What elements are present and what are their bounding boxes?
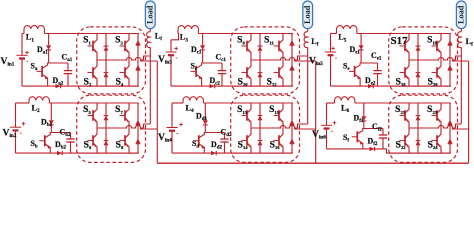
diode Dd1 (vertical, bottom module) (204, 103, 206, 120)
freewheel diode of S21 (417, 103, 419, 128)
freewheel diode of S10 (259, 60, 261, 86)
transistor S21 (top-left switch) (405, 103, 409, 113)
wire top DC rail of H-bridge (389, 102, 450, 104)
wire top rail from Vin5 to inductor L5 (331, 33, 337, 35)
transistor S9 (top-left switch) (247, 34, 251, 44)
freewheel diode column of S23 and S24 (right leg) (449, 103, 451, 153)
wire output B of top H-bridge to return bus (294, 60, 316, 62)
battery Vin2 (source of bottom module, column 1) (15, 103, 17, 127)
capacitor Ce1 (377, 63, 379, 71)
wire bottom rail of bottom module (172, 152, 293, 154)
battery Vin3 (source of top module, column 2) (170, 40, 172, 52)
wire load to filter inductor (307, 29, 309, 32)
freewheel diode of S17 (417, 34, 419, 61)
switch Sc (converter transistor) (197, 63, 203, 68)
wire common return bus along bottom (157, 162, 468, 164)
wire mid rail with crossover hop (97, 57, 144, 60)
wire node to capacitor (203, 62, 222, 64)
wire mid rail with crossover hop (251, 125, 298, 128)
wire node to capacitor (bottom module) (364, 128, 383, 130)
capacitor Cd2 (224, 133, 226, 140)
transistor S18 (bottom-left switch) (405, 60, 409, 70)
wire vertical return between modules (156, 61, 158, 163)
transistor S6 (bottom-left switch) (93, 128, 97, 138)
wire bottom rail of bottom module (327, 149, 452, 153)
switch Se (converter transistor) (355, 63, 361, 68)
diode De2 (on bottom rail) (368, 84, 373, 88)
transistor S24 (bottom-right switch) (437, 128, 441, 138)
freewheel diode column of S3 and S4 (right leg) (137, 34, 139, 87)
transistor S14 (bottom-left switch) (247, 128, 251, 138)
wire top rail to H-bridge (198, 33, 293, 35)
wire output B of bottom H-bridge (452, 128, 469, 130)
inductor L6 (335, 97, 355, 101)
wire output B of top H-bridge to return bus (140, 60, 157, 62)
wire bottom DC rail of H-bridge (231, 85, 292, 87)
wire bottom rail of top module (22, 85, 139, 87)
transistor S4 (bottom-right switch) (125, 60, 129, 70)
wire load to filter inductor (460, 29, 462, 32)
wire node to capacitor (361, 62, 377, 64)
wire mid rail with crossover hop (409, 125, 456, 128)
wire node to capacitor (bottom module) (205, 132, 224, 134)
svg-text:Load: Load (145, 5, 154, 24)
H-bridge module dashed enclosure (row 1, column 3) (389, 27, 458, 94)
transistor S13 (top-left switch) (247, 103, 251, 113)
battery Vin5 (source of top module, column 3) (330, 34, 332, 53)
battery Vin6 (source of bottom module, column 3) (326, 103, 328, 125)
wire bottom rail of bottom module (16, 152, 140, 154)
wire output A of top H-bridge (298, 56, 308, 60)
wire top rail to H-bridge (bottom module) (355, 102, 451, 104)
capacitor Cf2 (382, 129, 384, 136)
transistor S23 (top-right switch) (437, 103, 441, 113)
H-bridge module dashed enclosure (row 1, column 1) (77, 27, 146, 94)
diode Da2 (on bottom rail) (56, 84, 61, 88)
inductor L5 (337, 26, 357, 29)
freewheel diode of S18 (417, 60, 419, 86)
wire top rail to H-bridge (bottom module) (49, 102, 139, 104)
wire top rail from Vin2 to inductor L2 (16, 102, 30, 104)
diode Da1 (vertical) (48, 34, 50, 46)
wire top rail from Vin6 to inductor L6 (327, 102, 335, 104)
freewheel diode of S14 (259, 128, 261, 153)
wire node to capacitor (49, 62, 68, 64)
wire top DC rail of H-bridge (231, 102, 292, 104)
H-bridge module dashed enclosure (row 2, column 3) (389, 95, 458, 162)
transistor S8 (bottom-right switch) (125, 128, 129, 138)
freewheel diode of S9 (259, 34, 261, 61)
transistor S10 (bottom-left switch) (247, 60, 251, 70)
wire output A of top H-bridge (144, 56, 151, 60)
wire output A of bottom H-bridge (144, 124, 151, 128)
wire vertical return between modules (315, 61, 317, 163)
wire Lf down to H-bridge outputs (node A riser) (460, 47, 462, 124)
transistor S7 (top-right switch) (125, 103, 129, 113)
diode Dd2 (on bottom rail, bottom module) (211, 151, 216, 155)
inductor L4 (183, 97, 203, 101)
wire bottom DC rail of H-bridge (77, 85, 138, 87)
wire Lf down to H-bridge outputs (node A riser) (149, 47, 151, 124)
wire top rail to H-bridge (bottom module) (203, 102, 293, 104)
svg-text:S17: S17 (391, 35, 409, 47)
diode Dc1 (vertical) (202, 34, 204, 46)
H-bridge module dashed enclosure (row 2, column 1) (77, 95, 146, 162)
inductor L2 (29, 97, 49, 101)
diode De1 (vertical) (360, 34, 362, 46)
wire Lf down to H-bridge outputs (node A riser) (307, 47, 309, 124)
wire top rail from Vin4 to inductor L4 (172, 102, 183, 104)
diode Df1 (vertical, bottom module) (363, 103, 365, 116)
diode Df2 (on bottom rail, bottom module) (370, 147, 375, 151)
diode Db1 (vertical, bottom module) (50, 103, 52, 120)
freewheel diode column of S7 and S8 (right leg) (137, 103, 139, 153)
freewheel diode of S13 (259, 103, 261, 128)
transistor S17 (top-left switch) (405, 34, 409, 44)
transistor S15 (top-right switch) (279, 103, 283, 113)
wire output B of bottom H-bridge (294, 128, 316, 130)
transistor S22 (bottom-left switch) (405, 128, 409, 138)
inductor L1 (24, 26, 44, 29)
switch Sd (converter transistor, bottom module) (199, 133, 205, 138)
wire bottom rail of top module (331, 85, 452, 87)
wire bottom DC rail of H-bridge (389, 85, 450, 87)
capacitor Ca1 (67, 63, 69, 71)
freewheel diode of S6 (105, 128, 107, 153)
transistor S16 (bottom-right switch) (279, 128, 283, 138)
wire bottom rail of top module (171, 85, 293, 87)
transistor S20 (bottom-right switch) (437, 60, 441, 70)
wire mid rail with crossover hop (409, 57, 456, 60)
filter inductor Lf (column 3) (458, 32, 462, 48)
freewheel diode of S2 (105, 60, 107, 86)
wire top rail from Vin3 to inductor L3 (171, 34, 179, 40)
wire top DC rail of H-bridge (231, 33, 292, 35)
H-bridge module dashed enclosure (row 1, column 2) (231, 27, 300, 94)
transistor S5 (top-left switch) (93, 103, 97, 113)
wire bottom DC rail of H-bridge (231, 152, 292, 154)
transistor S1 (top-left switch) (93, 34, 97, 44)
transistor S12 (bottom-right switch) (279, 60, 283, 70)
wire top DC rail of H-bridge (77, 102, 138, 104)
wire load to filter inductor (149, 29, 151, 32)
load block (column 2) (303, 1, 313, 29)
freewheel diode of S1 (105, 34, 107, 61)
wire top DC rail of H-bridge (389, 33, 450, 35)
switch Sb (converter transistor, bottom module) (45, 133, 51, 138)
wire mid rail with crossover hop (97, 125, 144, 128)
wire output A of bottom H-bridge (298, 124, 308, 128)
wire output B of top H-bridge to return bus (452, 60, 469, 62)
freewheel diode column of S11 and S12 (right leg) (291, 34, 293, 87)
wire node to capacitor (bottom module) (51, 132, 70, 134)
wire mid rail with crossover hop (251, 57, 298, 60)
freewheel diode of S5 (105, 103, 107, 128)
wire bottom DC rail of H-bridge (389, 152, 450, 154)
H-bridge module dashed enclosure (row 2, column 2) (231, 95, 300, 162)
load block (column 3) (456, 1, 466, 29)
freewheel diode column of S15 and S16 (right leg) (291, 103, 293, 153)
switch Sf (converter transistor, bottom module) (358, 129, 364, 134)
wire vertical return between modules (468, 61, 470, 163)
filter inductor Lf (column 2) (304, 32, 308, 48)
wire output A of top H-bridge (456, 56, 462, 60)
transistor S3 (top-right switch) (125, 34, 129, 44)
diode Dc2 (on bottom rail) (210, 84, 215, 88)
wire top rail to H-bridge (44, 33, 139, 35)
freewheel diode column of S19 and S20 (right leg) (449, 34, 451, 87)
transistor S11 (top-right switch) (279, 34, 283, 44)
wire top rail from Vin1 to inductor L1 (22, 33, 24, 35)
capacitor Cb2 (70, 133, 72, 140)
wire top DC rail of H-bridge (77, 33, 138, 35)
capacitor Cc1 (221, 63, 223, 71)
freewheel diode of S22 (417, 128, 419, 153)
wire output B of bottom H-bridge (140, 128, 157, 130)
transistor S2 (bottom-left switch) (93, 60, 97, 70)
filter inductor Lf (column 1) (147, 32, 151, 48)
battery Vin4 (source of bottom module, column 2) (171, 103, 173, 128)
svg-text:Load: Load (303, 5, 312, 24)
wire top rail to H-bridge (357, 33, 451, 35)
switch Sa (converter transistor) (43, 63, 49, 68)
load block (column 1) (145, 1, 155, 29)
battery Vin1 (source of top module, column 1) (21, 34, 23, 56)
wire bottom DC rail of H-bridge (77, 152, 138, 154)
svg-text:Load: Load (456, 5, 465, 24)
wire output A of bottom H-bridge (456, 124, 462, 128)
inductor L3 (178, 26, 198, 29)
diode Db2 (on bottom rail, bottom module) (57, 151, 62, 155)
transistor S19 (top-right switch) (437, 34, 441, 44)
